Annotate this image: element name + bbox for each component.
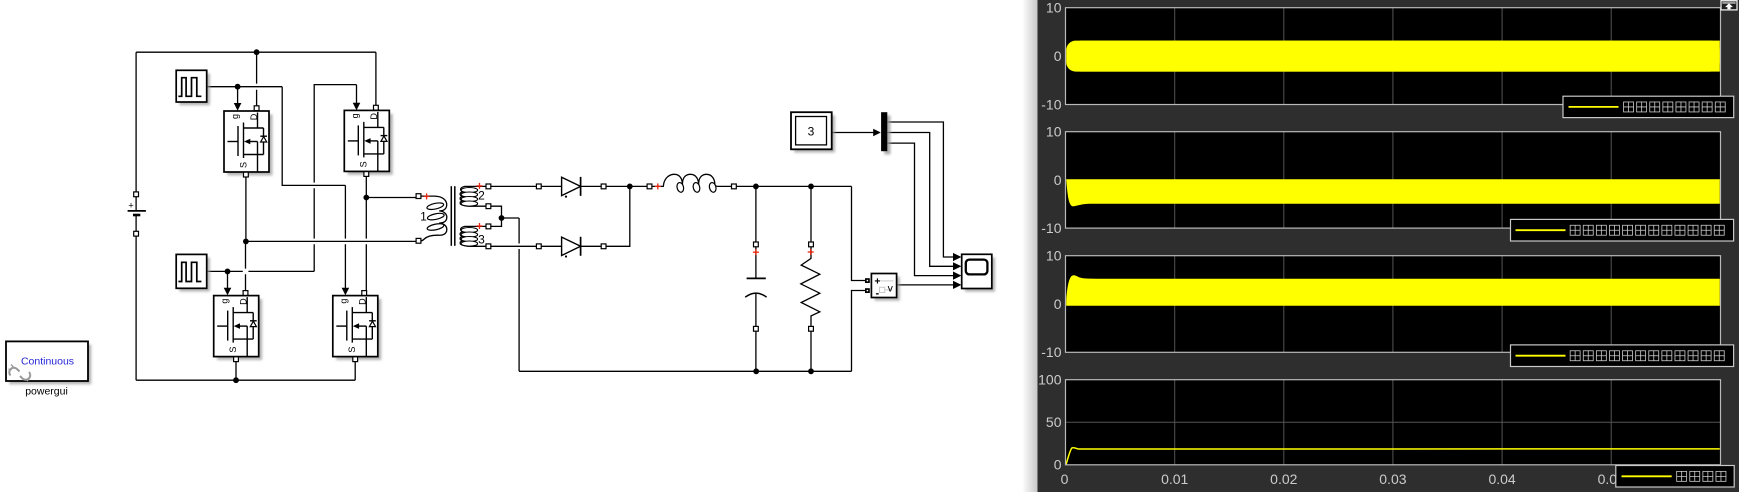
junction node transformer center tap <box>499 215 505 221</box>
arrow into demux <box>873 129 881 137</box>
wire demux out2 to scope in2 <box>887 133 953 267</box>
voltage measurement VM minus port <box>865 288 870 293</box>
wire winding3 top to center tap <box>491 221 502 227</box>
battery positive port <box>134 192 139 197</box>
diode D2 anode port <box>536 244 541 249</box>
wire bottom rail <box>136 379 355 381</box>
wire winding2 bottom to center tap <box>491 206 502 215</box>
diode D2 cathode port <box>601 244 606 249</box>
wire output return up to voltmeter minus <box>852 291 866 372</box>
wire battery positive riser <box>135 52 137 192</box>
svg-text:100: 100 <box>1038 372 1062 388</box>
svg-text:0.04: 0.04 <box>1488 471 1515 487</box>
junction node bridge right midpoint <box>363 195 369 201</box>
scope subplot 4 border <box>1066 380 1721 465</box>
scope window background <box>1022 0 1739 492</box>
legend plot1 <box>1563 96 1734 117</box>
scope subplot 1 axes <box>1066 8 1721 105</box>
svg-text:0: 0 <box>1061 471 1069 487</box>
wire inductor to output top bus <box>736 185 851 187</box>
wire battery negative drop <box>135 236 137 380</box>
battery negative port <box>134 231 139 236</box>
junction node pulse1 branch <box>235 84 241 90</box>
svg-text:+: + <box>874 276 880 288</box>
transformer winding 3 <box>460 226 486 246</box>
resistor R1 top port <box>809 242 814 247</box>
svg-text:0: 0 <box>1054 296 1062 312</box>
scope subplot 3 tick labels <box>1041 248 1061 361</box>
legend plot4 <box>1616 466 1734 488</box>
svg-text:0.01: 0.01 <box>1161 471 1188 487</box>
wire pulse P2 to Q3 gate branch (gap at Q3 drain crossing) <box>207 270 315 272</box>
wire D2 cathode up to rectifier node <box>582 186 630 246</box>
mosfet Q4 source port <box>353 357 358 362</box>
inductor L1 right port <box>732 184 737 189</box>
scope subplot 4 tick labels <box>1038 372 1062 473</box>
pulse generator P1 <box>176 70 210 105</box>
wire P2 cross route to Q2 gate <box>314 85 356 272</box>
capacitor C1 <box>745 247 766 327</box>
mosfet Q1 source port <box>244 172 249 177</box>
waveform plot3 secondary winding2 current band <box>1066 275 1720 305</box>
svg-text:-10: -10 <box>1041 344 1061 360</box>
scope subplot 2 axes <box>1066 132 1721 228</box>
transformer winding 3 plus mark <box>477 223 483 229</box>
wire bridge left midpoint to transformer primary minus <box>246 240 416 242</box>
transformer winding 1 minus port <box>416 238 421 243</box>
scope block <box>962 254 995 291</box>
battery DC source E1 <box>128 197 146 232</box>
legend plot3 <box>1511 345 1734 367</box>
diode D1 anode port <box>536 184 541 189</box>
capacitor C1 bottom port <box>754 326 759 331</box>
arrow into Q1 gate <box>234 103 242 111</box>
voltage measurement VM plus port <box>865 278 870 283</box>
transformer winding 2 <box>460 186 486 206</box>
wire P1 gate drop shaft <box>237 87 239 104</box>
mosfet Q4 drain port <box>362 291 367 296</box>
svg-text:-10: -10 <box>1041 220 1061 236</box>
transformer winding 2 plus port <box>486 184 491 189</box>
scope subplot 3 axes <box>1066 256 1721 353</box>
mosfet Q4 <box>333 296 381 360</box>
scope subplot 1 border <box>1066 8 1721 105</box>
wire bridge right midpoint to Q4 drain (gap at primary wire) <box>365 198 367 292</box>
wire Q2 drain riser <box>375 52 377 105</box>
arrow scope in2 <box>953 262 961 270</box>
svg-text:-: - <box>875 287 879 299</box>
diode D1 <box>562 177 581 198</box>
svg-text:10: 10 <box>1046 248 1062 264</box>
waveform plot2 secondary winding1 current band <box>1066 179 1720 206</box>
powergui label <box>25 386 68 398</box>
wire output return bus <box>519 370 851 372</box>
powergui block <box>6 341 91 384</box>
svg-text:-10: -10 <box>1041 96 1061 112</box>
wire bridge right midpoint to transformer primary plus <box>366 197 416 199</box>
inductor L1 plus mark <box>655 183 661 189</box>
wire winding2 top to diode D1 anode <box>491 185 536 187</box>
svg-text:50: 50 <box>1046 414 1062 430</box>
junction node capacitor top <box>753 184 759 190</box>
wire D1 anode lead <box>541 185 561 187</box>
transformer winding 1 label <box>420 210 427 224</box>
mosfet Q1 drain port <box>254 106 259 111</box>
svg-text:3: 3 <box>478 232 485 246</box>
scope subplot 1 tick labels <box>1041 0 1061 112</box>
svg-text:0.02: 0.02 <box>1270 471 1297 487</box>
arrow into Q4 gate <box>342 288 350 296</box>
arrow scope in4 <box>953 281 961 289</box>
junction node capacitor bottom <box>753 368 759 374</box>
transformer winding 3 plus port <box>486 224 491 229</box>
voltage measurement VM <box>871 274 899 301</box>
scope subplot 4 axes <box>1066 380 1721 465</box>
transformer winding 2 minus port <box>486 204 491 209</box>
wire Q2 source to bridge right midpoint <box>365 177 367 198</box>
svg-text:powergui: powergui <box>25 386 68 398</box>
mosfet Q3 drain port <box>243 291 248 296</box>
svg-text:v: v <box>888 282 894 294</box>
capacitor C1 plus mark <box>753 249 759 255</box>
wire capacitor branch bottom <box>755 331 757 371</box>
wire Q1 source to bridge left midpoint <box>245 177 247 241</box>
svg-text:1: 1 <box>420 210 427 224</box>
inductor L1 left port <box>647 184 652 189</box>
junction node bottom rail Q3 <box>233 377 239 383</box>
wire D1 cathode to rectifier node <box>582 185 630 187</box>
wire P2 gate drop shaft <box>227 271 229 288</box>
mosfet Q2 drain port <box>374 105 379 110</box>
wire Q3 source to bottom rail <box>235 362 237 381</box>
transformer winding 1 plus mark <box>424 193 430 199</box>
wire center tap to output return (gap at diode row) <box>502 218 520 371</box>
wire winding3 bottom to diode D2 anode <box>491 245 536 247</box>
transformer winding 1 plus port <box>416 194 421 199</box>
wire resistor branch bottom <box>810 331 812 371</box>
transformer winding 2 plus mark <box>477 183 483 189</box>
pulse generator P2 <box>176 254 210 291</box>
svg-text:Continuous: Continuous <box>21 356 74 368</box>
mosfet Q2 source port <box>364 172 369 177</box>
wire demux out3 to scope in3 <box>887 143 953 276</box>
demux <box>881 112 890 154</box>
constant multimeter block (3) <box>791 112 835 152</box>
svg-text:3: 3 <box>808 125 815 139</box>
wire Q4 source to bottom rail <box>354 362 356 381</box>
wire voltmeter out to scope in4 <box>897 284 954 286</box>
resistor R1 <box>801 247 820 327</box>
svg-text:10: 10 <box>1046 0 1062 16</box>
wire Q3 drain riser (gap at pulse2 crossing) <box>245 241 247 291</box>
wire resistor branch top <box>810 186 812 242</box>
arrow into Q3 gate <box>224 288 232 296</box>
legend plot2 <box>1511 219 1734 241</box>
diode D1 cathode port <box>601 184 606 189</box>
wire P1 cross route to Q4 gate <box>282 87 345 293</box>
mosfet Q2 <box>344 110 392 174</box>
svg-text:0: 0 <box>1054 48 1062 64</box>
transformer winding 2 label <box>478 189 485 203</box>
waveform plot4 output voltage trace <box>1066 448 1720 465</box>
transformer winding 3 minus port <box>486 244 491 249</box>
wire output top bus down to voltmeter plus <box>852 186 866 280</box>
svg-text:0: 0 <box>1054 172 1062 188</box>
junction node resistor bottom <box>808 368 814 374</box>
mosfet Q3 source port <box>234 357 239 362</box>
mosfet Q1 <box>224 111 272 175</box>
wire capacitor branch top <box>755 186 757 242</box>
resistor R1 bottom port <box>809 326 814 331</box>
svg-text:0.03: 0.03 <box>1379 471 1406 487</box>
scope subplot 2 border <box>1066 132 1721 228</box>
transformer T1 core <box>451 186 455 246</box>
arrow scope in3 <box>953 272 961 280</box>
scope x axis tick labels <box>1061 471 1625 487</box>
resistor R1 plus mark <box>808 249 814 255</box>
waveform plot1 primary current band <box>1066 41 1720 72</box>
mosfet Q3 <box>214 296 262 360</box>
svg-text:2: 2 <box>478 189 485 203</box>
junction node resistor top <box>808 184 814 190</box>
scope subplot 2 tick labels <box>1041 124 1061 236</box>
transformer winding 3 label <box>478 232 485 246</box>
junction node bridge left midpoint <box>243 239 249 245</box>
arrow scope in1 <box>953 253 961 261</box>
diode D2 <box>562 237 581 258</box>
junction node top bus / Q1 drain <box>254 49 260 55</box>
capacitor C1 top port <box>754 242 759 247</box>
junction node pulse2 branch <box>225 269 231 275</box>
scope dock button <box>1721 1 1737 10</box>
transformer winding 1 (primary) <box>421 196 447 241</box>
wire demux out1 to scope in1 <box>887 122 953 257</box>
arrow into Q2 gate <box>353 103 361 110</box>
scope subplot 3 border <box>1066 256 1721 353</box>
wire multimeter to demux <box>832 132 874 134</box>
wire D2 anode lead <box>541 245 561 247</box>
junction node rectifier output <box>627 184 633 190</box>
wire rectifier node to inductor <box>630 185 647 187</box>
inductor L1 <box>652 174 732 193</box>
wire Q1 drain riser (gap at pulse crossing) <box>256 52 258 106</box>
wire pulse P1 to Q1 gate branch <box>207 86 283 88</box>
svg-text:10: 10 <box>1046 124 1062 140</box>
wire top DC bus <box>136 51 376 53</box>
svg-text:+: + <box>128 200 134 211</box>
